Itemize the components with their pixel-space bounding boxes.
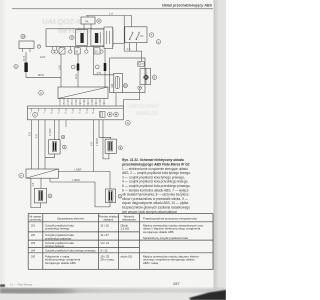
instrument cluster box: [110, 58, 145, 93]
svg-text:20: 20: [79, 113, 81, 115]
diagnostic socket box in strip: [100, 112, 106, 118]
svg-text:5 i 12: 5 i 12: [100, 248, 107, 252]
lower harness connector: [26, 169, 59, 178]
svg-text:Układ przeciwblokujący ABS: Układ przeciwblokujący ABS: [162, 3, 213, 7]
svg-text:UWTEIWŚO: UWTEIWŚO: [128, 103, 160, 110]
svg-text:ABS i masą: ABS i masą: [143, 261, 158, 265]
wire loop left of sensor RL: [31, 178, 41, 207]
lamp lower terminal: [138, 86, 142, 90]
svg-text:42 R: 42 R: [75, 74, 78, 79]
lamp unit inner box: [140, 69, 151, 85]
wheel speed sensor RL (2): [34, 188, 46, 203]
svg-text:1 MRN: 1 MRN: [96, 138, 99, 146]
node label circle at fuse: [97, 19, 101, 23]
node label circle lower right of switch: [156, 40, 160, 44]
svg-text:17: 17: [72, 113, 74, 115]
node label circle left of connector bar: [14, 64, 18, 68]
svg-text:L NER: L NER: [74, 169, 81, 172]
left scan edge: [0, 0, 7, 300]
svg-text:9 R: 9 R: [91, 142, 94, 146]
svg-text:11 i 16: 11 i 16: [100, 223, 109, 227]
node label circle at fuse plate: [123, 84, 127, 88]
svg-text:1,1 kΩ: 1,1 kΩ: [120, 227, 129, 231]
diagnostic terminal circle b: [114, 112, 119, 117]
wire loop under sensor FR: [103, 140, 109, 159]
svg-text:Sprawdzany element: Sprawdzany element: [57, 216, 84, 220]
svg-text:przeciwblokującego ABS Fiata M: przeciwblokującego ABS Fiata Marea W G2: [121, 162, 190, 166]
connector bar (black) on B1 wire: [24, 63, 27, 73]
wire relay to ECU pin 1: [60, 54, 62, 87]
diagnostic terminal circle a: [108, 112, 113, 117]
svg-text:Sprawdzany czujnik prędkości k: Sprawdzany czujnik prędkości koła: [143, 236, 188, 240]
stub wire x66: [65, 120, 67, 127]
connector bar (black) on wire 3: [104, 63, 107, 71]
svg-text:7: 7: [44, 113, 45, 115]
wire junction run y51: [124, 50, 142, 52]
svg-text:11 i 27: 11 i 27: [100, 233, 109, 237]
wire strip to sensor FR b: [102, 120, 104, 140]
ECU connector strip: [28, 106, 124, 120]
svg-text:czynnośc: czynnośc: [29, 218, 42, 222]
wheel speed sensor RR (3): [106, 189, 116, 203]
wire drop to fuse F: [87, 16, 89, 18]
svg-text:AINELIS: AINELIS: [136, 111, 158, 117]
svg-text:12: 12: [58, 113, 60, 115]
node label circle 3: [118, 194, 122, 198]
terminal box b: [74, 48, 80, 54]
wire bar to junction: [26, 72, 61, 77]
relay K3: [104, 27, 113, 49]
svg-text:22: 22: [86, 113, 88, 115]
svg-text:1 B: 1 B: [32, 182, 35, 186]
header rule: [12, 7, 213, 10]
svg-text:10 B: 10 B: [23, 56, 26, 61]
svg-text:sterującego układu ABS: sterującego układu ABS: [45, 261, 76, 265]
svg-text:10 A: 10 A: [58, 65, 61, 70]
ABS warning lamp 6: [144, 69, 149, 85]
svg-text:przedniego prawego: przedniego prawego: [45, 236, 72, 240]
node label circle 5: [119, 146, 123, 150]
node label circle 7 below fusebox: [37, 45, 41, 49]
node label circle 2: [48, 194, 52, 198]
wheel speed sensor FL (4): [49, 140, 60, 154]
svg-text:około 0Ω: około 0Ω: [120, 254, 132, 258]
wire strip to sensor FL a: [54, 120, 56, 140]
node label circle inside fusebox: [70, 35, 74, 39]
svg-text:2/1: 2/1: [31, 223, 35, 227]
wire top supply line: [86, 15, 132, 17]
wire strip to sensor FR a: [98, 120, 100, 138]
fuse plate box 10: [114, 73, 123, 92]
svg-text:14 i 21: 14 i 21: [100, 241, 109, 245]
battery connector box B1: [19, 41, 34, 49]
svg-text:1 m: 1 m: [127, 48, 131, 51]
ghost bleed-through text middle right: [128, 103, 160, 117]
svg-text:L MRN: L MRN: [72, 179, 80, 182]
svg-text:7A: 7A: [85, 19, 89, 23]
node label circle right of switch: [149, 33, 153, 37]
svg-text:10: 10: [21, 35, 25, 39]
svg-text:26: 26: [92, 113, 94, 115]
wire bend into sensor FR top: [99, 137, 111, 139]
wire relay 2 bend to fuse plate: [94, 50, 114, 75]
node label circle at lower connector: [19, 173, 24, 178]
node label circle at relay 2 wire: [95, 65, 99, 69]
fuse F10 top box: [81, 17, 95, 24]
wire relay to ECU pin 2: [77, 54, 79, 87]
bottom scan band: [0, 288, 226, 294]
wire relay 3 to ECU: [104, 52, 106, 87]
pin stubs under fusebox: [53, 46, 105, 52]
svg-text:2/2: 2/2: [31, 233, 35, 237]
svg-text:2/3: 2/3: [31, 241, 35, 245]
relay K1: [76, 30, 88, 46]
wire strip down mid a: [93, 120, 95, 172]
ECU box 1: [58, 87, 108, 99]
ignition switch S7: [125, 27, 147, 43]
connector bar (black) on wire 2: [77, 64, 80, 71]
wire strip to lower connector c: [44, 120, 46, 169]
node label circle left of ECU: [39, 91, 44, 96]
ECU pin stubs bottom: [60, 99, 104, 108]
svg-text:287: 287: [173, 281, 180, 286]
fusebox/relay box outline 8: [46, 29, 113, 47]
svg-text:8 R: 8 R: [36, 134, 39, 138]
wire relay3 to switch vertical: [113, 42, 125, 44]
svg-text:sterującego układu ABS: sterującego układu ABS: [143, 230, 174, 234]
wire lower connector to sensor RR top: [59, 172, 111, 190]
terminal box c: [94, 48, 100, 54]
svg-text:10: 10: [51, 113, 53, 115]
ghost bleed-through text top: [42, 17, 93, 35]
terminal circles row: [51, 50, 103, 53]
right scan strip: [214, 0, 227, 300]
node label circle above B1: [21, 34, 25, 38]
wire drop to ignition switch: [131, 16, 133, 27]
svg-text:stykami: stykami: [104, 218, 114, 222]
node label circle 9: [125, 120, 130, 125]
strip pin numbers row: [30, 113, 94, 115]
svg-text:Czujnik prędkości koła tylnego: Czujnik prędkości koła tylnego prawego: [45, 248, 96, 252]
svg-text:10: 10: [124, 84, 128, 88]
cluster connector sub-box: [138, 62, 144, 67]
relay K2: [91, 29, 104, 46]
wire from B1 down: [25, 52, 27, 63]
wire loop under sensor RR: [50, 178, 110, 207]
svg-text:15: 15: [65, 113, 67, 115]
page background: [0, 0, 226, 300]
svg-text:przedniego lewego: przedniego lewego: [45, 227, 70, 231]
svg-text:1 d: 1 d: [109, 12, 113, 16]
wire cluster to connector strip: [124, 90, 140, 107]
node label circle left of bar 2: [71, 65, 75, 69]
wire fuse to connector strip: [115, 93, 117, 107]
pin stubs under B1: [23, 49, 31, 53]
svg-text:88 W: 88 W: [38, 74, 44, 77]
wire loop under sensor FL: [45, 154, 55, 158]
svg-text:wskazania: wskazania: [122, 218, 136, 222]
node label circle 4b: [63, 145, 67, 149]
svg-text:Prawdopodobna przyczyna niespr: Prawdopodobna przyczyna niesprawności: [143, 216, 197, 220]
svg-text:2/4: 2/4: [31, 248, 35, 252]
svg-text:6 B: 6 B: [29, 132, 32, 136]
svg-text:11 — Fiat Marea: 11 — Fiat Marea: [10, 283, 32, 287]
svg-text:2: 2: [30, 113, 31, 115]
terminal box a: [59, 48, 65, 54]
svg-text:10A: 10A: [111, 83, 114, 88]
ECU pin numbers: [59, 101, 106, 105]
wire drop right vertical: [123, 16, 125, 52]
pin stubs under fuse F10: [84, 24, 91, 29]
svg-text:28 z masą: 28 z masą: [100, 258, 114, 262]
wire drop to cluster: [141, 51, 143, 61]
wire strip to lower connector a: [31, 120, 33, 169]
svg-text:42 R: 42 R: [40, 56, 45, 59]
pin stubs under switch: [130, 43, 137, 51]
node label circle 1 in strip: [33, 112, 38, 117]
svg-text:(we wnęce obok skrzynki akumul: (we wnęce obok skrzynki akumulatora): [122, 210, 177, 214]
wire strip to lower connector b: [38, 120, 40, 169]
wheel speed sensor FR (5): [105, 139, 116, 153]
svg-text:9 ROS: 9 ROS: [49, 128, 52, 136]
svg-text:5: 5: [37, 113, 38, 115]
node label circle 6: [152, 75, 157, 80]
diagnostic table: [28, 214, 213, 270]
wire lower connector to sensor RL top: [40, 178, 42, 188]
wire strip to sensor FL b: [58, 120, 60, 140]
svg-text:2/5: 2/5: [31, 254, 35, 258]
figure caption block: [121, 158, 191, 214]
svg-text:4 W: 4 W: [97, 72, 102, 75]
node label circle above sensor FL: [61, 135, 65, 139]
